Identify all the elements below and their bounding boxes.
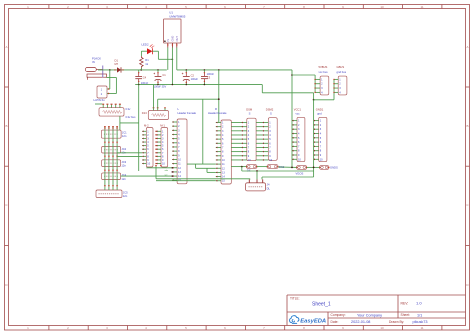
svg-text:JC3: JC3	[121, 160, 126, 164]
wire L right to R11	[187, 163, 216, 165]
svg-text:Date:: Date:	[331, 320, 339, 324]
svg-text:GND1: GND1	[316, 107, 324, 111]
junction	[291, 167, 293, 169]
svg-text:A: A	[466, 45, 468, 49]
capacitor C4	[135, 70, 148, 85]
resistor packs JC1-JC5	[96, 127, 128, 198]
svg-text:Company:: Company:	[331, 313, 346, 317]
svg-text:Sheet_1: Sheet_1	[312, 301, 331, 307]
svg-text:gnd bus: gnd bus	[337, 70, 347, 74]
LED LED2	[142, 43, 155, 55]
svg-text:IN: IN	[92, 60, 95, 64]
svg-text:Drawn By:: Drawn By:	[389, 320, 404, 324]
resistor pack D13	[142, 108, 169, 120]
svg-text:A: A	[5, 45, 7, 49]
wire gnd route right	[262, 85, 313, 100]
wire DS down	[241, 167, 243, 171]
wires R-DSM DSM-DSM2	[231, 123, 262, 160]
svg-text:JC2: JC2	[121, 147, 126, 151]
svg-text:DL: DL	[267, 186, 271, 190]
wire R1 to LED	[140, 51, 142, 56]
wire L12 net	[146, 167, 172, 169]
svg-text:B: B	[5, 124, 7, 128]
svg-text:10: 10	[380, 326, 384, 330]
svg-text:vcc: vcc	[296, 113, 301, 116]
svg-text:UMW78M05: UMW78M05	[169, 15, 185, 19]
wire 5v branch	[218, 70, 220, 99]
wire y178.8	[156, 178, 250, 180]
svg-text:C1: C1	[162, 73, 166, 77]
connector PJACK IN	[85, 57, 106, 80]
svg-text:10: 10	[380, 5, 384, 9]
svg-text:1/1: 1/1	[417, 313, 422, 317]
wire gnd1 drop	[313, 100, 315, 177]
wire R11 to DS	[231, 166, 246, 168]
svg-text:M7: M7	[115, 62, 119, 66]
junction	[256, 170, 258, 172]
svg-text:2022-01-08: 2022-01-08	[351, 320, 370, 324]
wire JC4 to L14	[121, 175, 173, 177]
wire J4 pin2	[256, 171, 258, 179]
svg-text:12n: 12n	[121, 177, 126, 181]
wire hpin1 to rail	[109, 70, 111, 89]
svg-text:11: 11	[420, 326, 423, 330]
wire R1 to rail	[140, 68, 142, 70]
svg-text:DSM2: DSM2	[266, 107, 274, 111]
svg-text:D1: D1	[115, 59, 119, 63]
svg-text:EasyEDA: EasyEDA	[300, 319, 326, 325]
svg-text:DS: DS	[247, 168, 251, 172]
svg-text:M-1: M-1	[160, 123, 165, 127]
svg-text:JC4: JC4	[121, 173, 126, 177]
svg-text:C2: C2	[191, 73, 195, 77]
header 5VBUS	[314, 76, 328, 95]
svg-text:11: 11	[420, 5, 423, 9]
wire stair2	[206, 168, 208, 172]
svg-text:VGOS: VGOS	[296, 171, 304, 175]
resistor R1	[140, 56, 150, 69]
wire DS2 to VGOS	[278, 166, 296, 169]
wire hpin2	[110, 93, 116, 95]
junction	[218, 69, 220, 71]
wire gnd drop x138.7	[138, 85, 140, 172]
header R	[216, 120, 232, 184]
wire LED to GND pin	[152, 50, 158, 52]
junction	[172, 167, 174, 169]
diode D1	[114, 59, 123, 73]
svg-text:gnd: gnd	[317, 112, 322, 116]
junction	[204, 84, 206, 86]
svg-text:LED2: LED2	[142, 43, 149, 47]
header GBUS	[333, 76, 347, 95]
svg-text:IN: IN	[166, 39, 170, 42]
wire y177	[262, 176, 314, 178]
wire 5vbus branch	[292, 74, 315, 76]
header M-1	[155, 128, 167, 168]
resistor DS2	[267, 165, 279, 169]
resistor VGOS	[296, 165, 307, 169]
svg-text:J4: J4	[267, 183, 270, 187]
svg-text:DSM: DSM	[246, 107, 253, 111]
svg-text:VCC1: VCC1	[294, 107, 302, 111]
svg-text:C4: C4	[143, 75, 147, 79]
junction	[291, 74, 293, 76]
svg-text:C3: C3	[207, 76, 211, 80]
wire 5v horiz	[158, 98, 219, 100]
svg-text:REV:: REV:	[401, 302, 409, 306]
title block	[287, 295, 466, 326]
header M-2	[142, 128, 153, 168]
wire VIN rail	[98, 69, 167, 71]
wire 5v right	[291, 70, 293, 167]
wire M1 bottom	[155, 166, 157, 179]
wire y171	[242, 170, 314, 172]
svg-text:R: R	[215, 107, 217, 111]
svg-text:OUT: OUT	[175, 36, 179, 42]
svg-text:R1: R1	[145, 58, 149, 62]
svg-text:S: S	[270, 112, 272, 116]
svg-text:GBUS: GBUS	[337, 65, 345, 69]
junction	[172, 171, 174, 173]
svg-text:S: S	[249, 112, 251, 116]
wire R15 left	[156, 180, 216, 182]
svg-text:pikusk73: pikusk73	[413, 320, 428, 324]
svg-text:GNDS: GNDS	[330, 166, 338, 170]
svg-text:TITLE:: TITLE:	[290, 297, 300, 301]
header DSM2	[263, 118, 278, 162]
header L	[172, 119, 187, 184]
svg-text:12n: 12n	[123, 194, 128, 198]
regulator U1 UMW78M05	[164, 11, 186, 85]
svg-text:3.3v: 3.3v	[125, 107, 131, 111]
svg-text:GND: GND	[170, 36, 174, 42]
junction	[140, 69, 142, 71]
resistor DS	[246, 165, 258, 169]
header GND1	[314, 117, 327, 161]
junction	[204, 69, 206, 71]
svg-text:D13: D13	[142, 111, 147, 115]
svg-text:B: B	[466, 124, 468, 128]
svg-text:1.0: 1.0	[416, 301, 422, 306]
svg-text:12n: 12n	[122, 134, 127, 138]
svg-text:Header Female: Header Female	[208, 111, 227, 115]
EasyEDA logo	[290, 316, 327, 325]
wire d13 pin1 gnd	[153, 85, 155, 108]
connector J4	[246, 179, 271, 191]
svg-text:vcc bus: vcc bus	[319, 70, 329, 74]
junction	[157, 84, 159, 86]
wire GND rail	[135, 84, 262, 86]
svg-text:H-PIN 6u: H-PIN 6u	[94, 98, 106, 102]
svg-text:100uF: 100uF	[191, 77, 199, 81]
junction	[157, 69, 159, 71]
junction	[313, 167, 315, 169]
junction	[313, 99, 315, 101]
junction	[241, 166, 243, 168]
capacitor C1	[154, 70, 167, 88]
svg-text:M-2: M-2	[144, 123, 149, 127]
junction	[172, 175, 174, 177]
junction	[172, 84, 174, 86]
wire JC to M2 row7	[117, 152, 142, 154]
header VCC1	[292, 117, 305, 161]
svg-text:Header Female: Header Female	[178, 111, 197, 115]
junction	[218, 98, 220, 100]
svg-text:100nF: 100nF	[207, 72, 215, 76]
junction	[186, 69, 188, 71]
wire VGOS to GNDS	[307, 166, 320, 168]
junction	[186, 84, 188, 86]
capacitor C2	[182, 70, 199, 85]
wire gbus branch	[333, 79, 335, 99]
wire 3v3 link	[120, 122, 139, 124]
wire d13 pin2	[157, 99, 159, 108]
junction	[138, 84, 140, 86]
svg-text:JC5: JC5	[123, 190, 128, 194]
wire stair1	[195, 164, 197, 168]
svg-text:Sheet:: Sheet:	[401, 313, 411, 317]
wire JC to M2 row8	[117, 155, 142, 157]
header DSM	[241, 118, 256, 162]
svg-text:3.3v bus: 3.3v bus	[125, 115, 136, 119]
junction	[109, 69, 111, 71]
resistor GNDS	[319, 165, 329, 169]
svg-text:JC1: JC1	[122, 130, 127, 134]
wire 5v to L-R	[202, 99, 204, 164]
svg-text:5VBUS: 5VBUS	[319, 65, 328, 69]
svg-text:Your Company: Your Company	[357, 313, 382, 317]
capacitor C3	[201, 70, 214, 85]
wire VOUT rail	[177, 69, 292, 71]
connector H-PIN	[94, 86, 111, 102]
resistor network 3.3v bus	[95, 104, 136, 119]
wire DS to DS2	[257, 166, 267, 168]
junction LED gnd	[172, 59, 174, 61]
svg-text:12n: 12n	[121, 164, 126, 168]
